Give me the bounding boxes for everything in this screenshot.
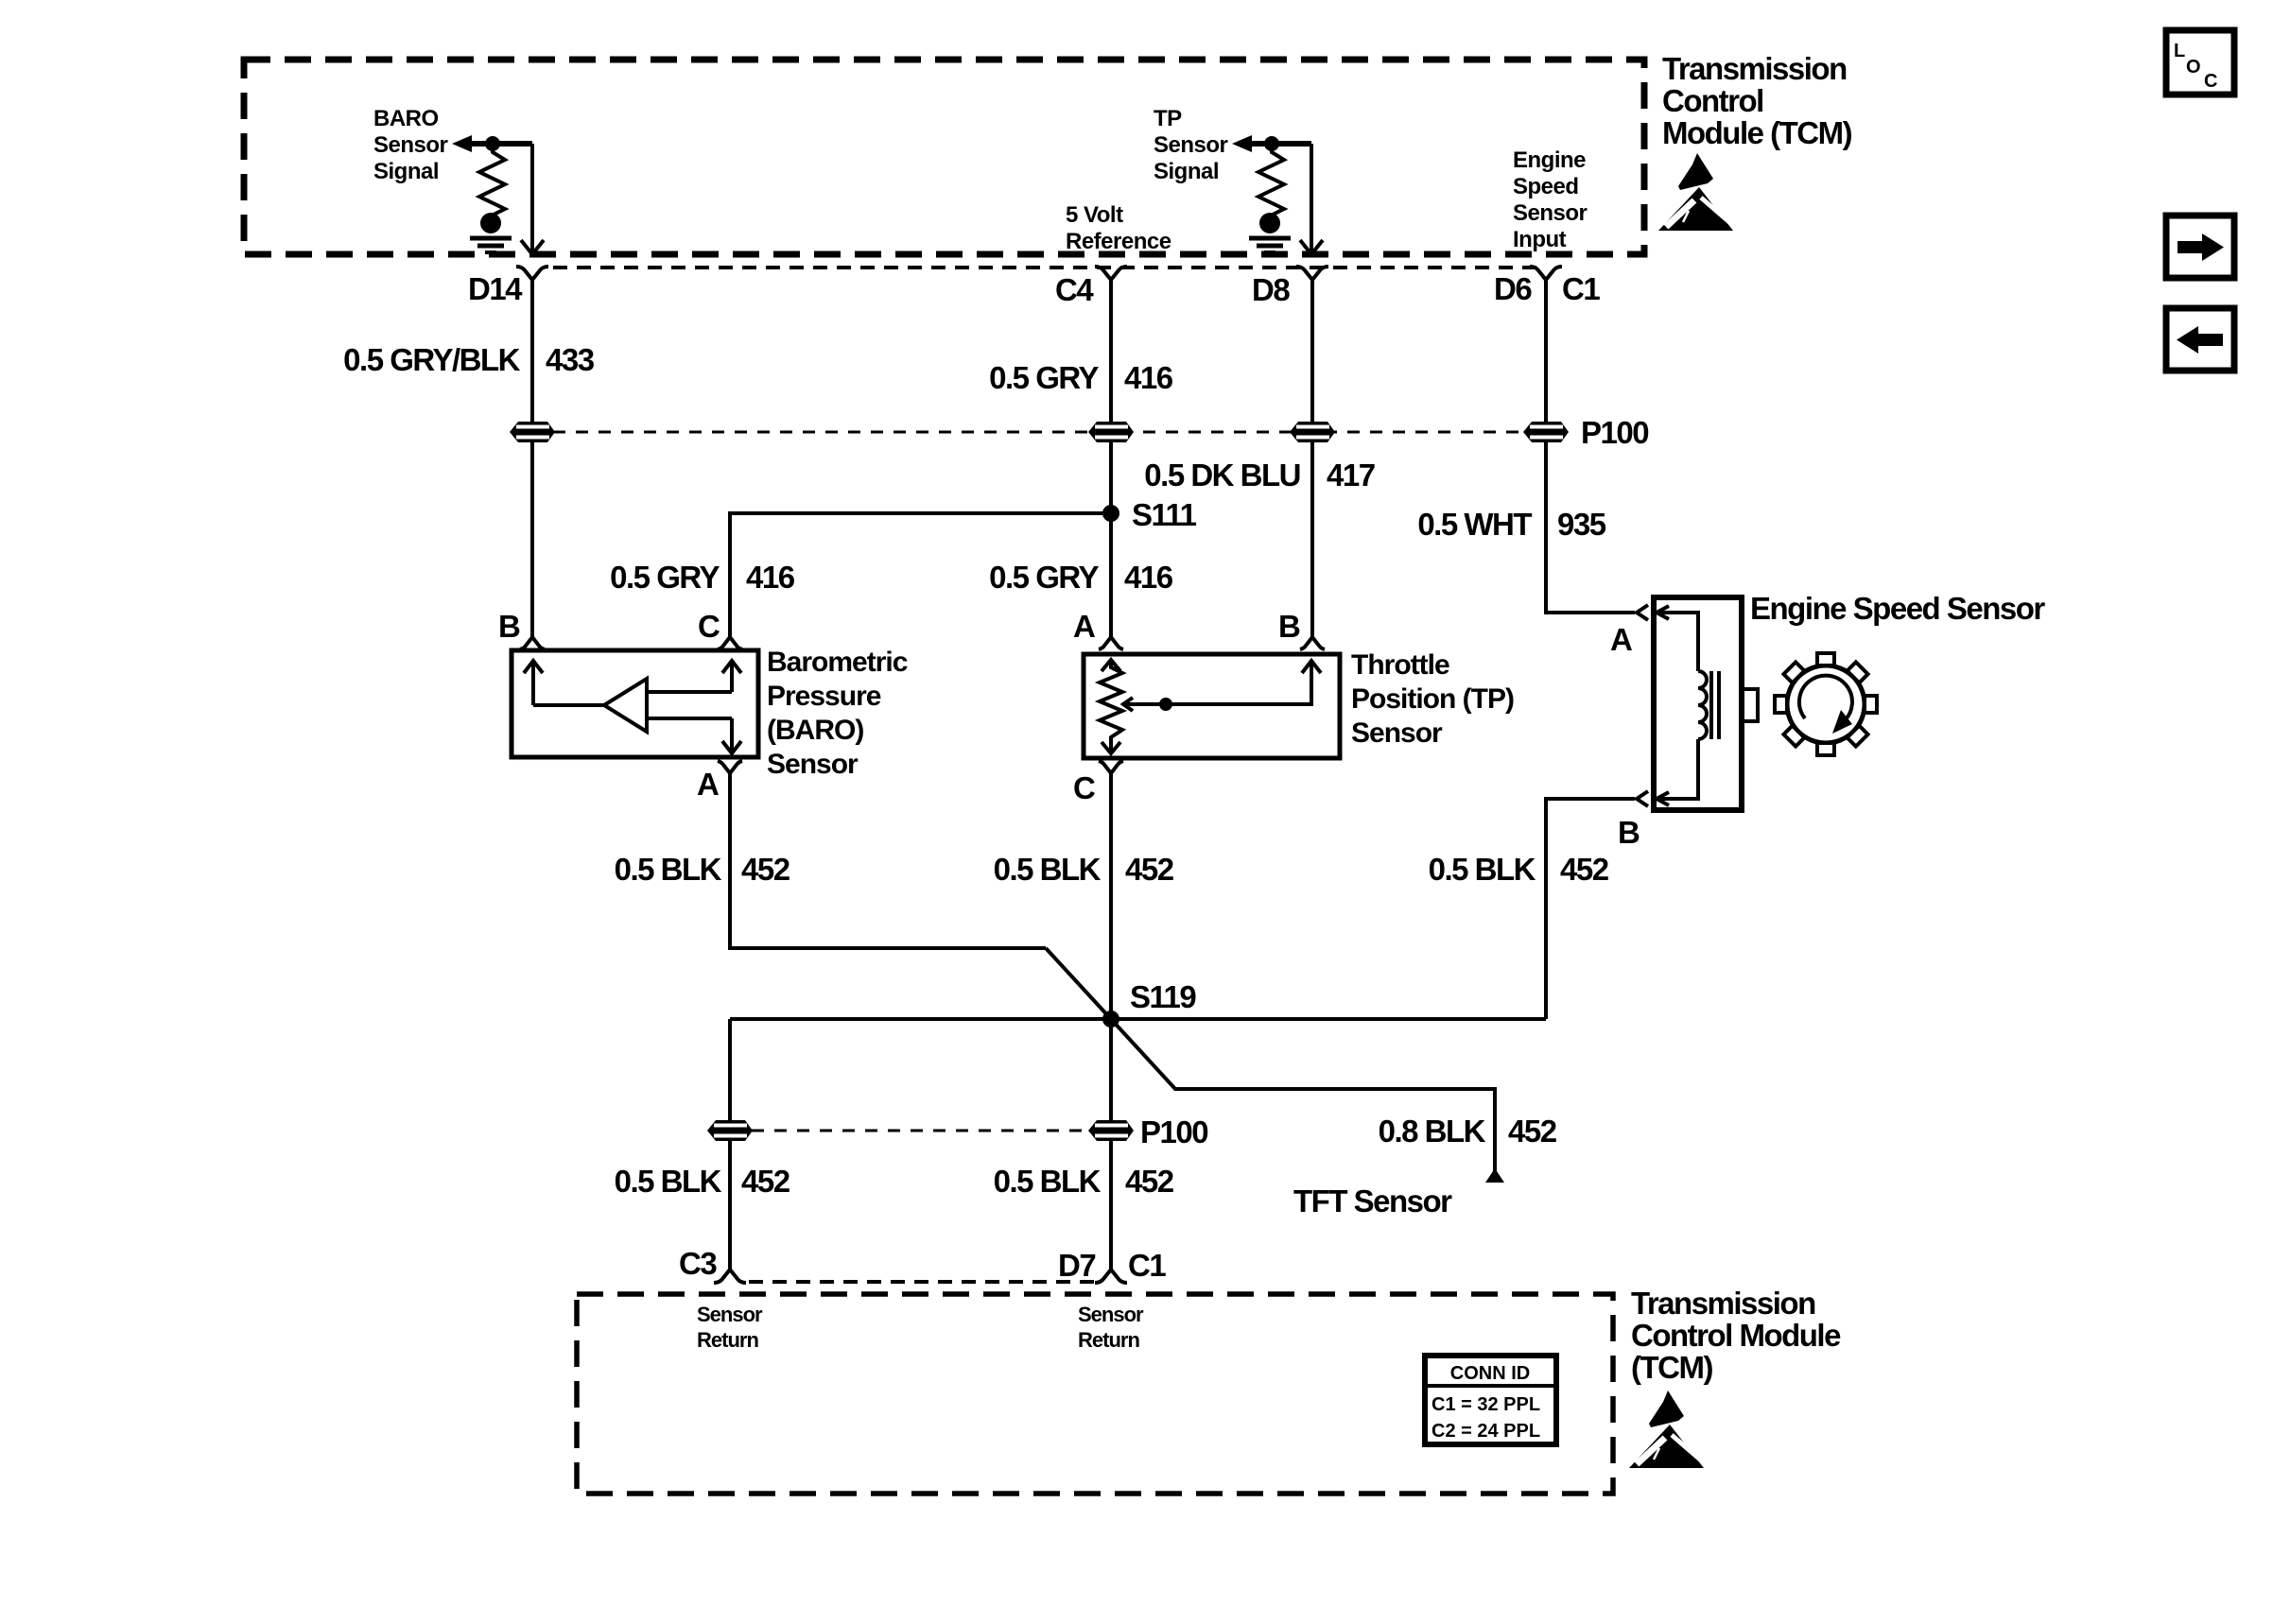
svg-text:C1: C1: [1128, 1248, 1166, 1283]
svg-text:D14: D14: [468, 271, 523, 306]
pin C (TP): [1073, 761, 1123, 805]
svg-text:Pressure: Pressure: [767, 681, 881, 712]
svg-text:Engine: Engine: [1513, 147, 1586, 173]
wire: left leg down to C3: [728, 1019, 732, 1270]
svg-text:P100: P100: [1140, 1114, 1207, 1149]
svg-text:0.5 BLK: 0.5 BLK: [615, 852, 722, 887]
svg-text:0.5 DK BLU: 0.5 DK BLU: [1144, 458, 1300, 492]
svg-text:Transmission: Transmission: [1662, 51, 1847, 86]
svg-text:C3: C3: [679, 1246, 717, 1281]
ground (BARO resistor): [470, 213, 512, 252]
pin C (BARO): [698, 609, 742, 649]
Throttle Position (TP) Sensor box: [1084, 654, 1340, 758]
pin C3: [679, 1246, 746, 1283]
wire 935: D6 to Engine Speed Sensor A: [1546, 280, 1635, 613]
label 0.5 GRY 416 (TP A): [989, 560, 1173, 595]
BARO Sensor Signal label: [373, 106, 448, 184]
svg-text:0.5 WHT: 0.5 WHT: [1417, 507, 1532, 542]
svg-text:A: A: [1073, 609, 1095, 644]
pin B (BARO): [498, 609, 545, 649]
wire 452: ESS B to S119: [1546, 799, 1635, 1019]
svg-text:452: 452: [1508, 1114, 1557, 1149]
label 0.5 BLK 452 (bottom left): [615, 1164, 790, 1199]
Sensor Return label (D7): [1078, 1303, 1144, 1352]
TP Sensor Signal label: [1154, 106, 1228, 184]
resistor (BARO signal pull-up): [479, 147, 505, 216]
svg-text:0.5 BLK: 0.5 BLK: [994, 1164, 1102, 1199]
svg-text:0.8 BLK: 0.8 BLK: [1379, 1114, 1486, 1149]
svg-text:Sensor: Sensor: [697, 1303, 763, 1326]
label 0.5 GRY 416 (C4): [989, 360, 1173, 395]
ground (TP resistor): [1249, 213, 1291, 252]
svg-text:Sensor: Sensor: [767, 749, 859, 780]
svg-text:452: 452: [1125, 1164, 1174, 1199]
svg-text:C2 = 24 PPL: C2 = 24 PPL: [1431, 1421, 1540, 1442]
Throttle Position (TP) Sensor label: [1351, 649, 1514, 749]
svg-text:S111: S111: [1132, 497, 1197, 532]
pin D8: [1252, 267, 1328, 307]
ESD symbol (top TCM): [1658, 153, 1736, 231]
svg-text:D8: D8: [1252, 272, 1290, 307]
svg-text:416: 416: [1124, 560, 1173, 595]
svg-text:(BARO): (BARO): [767, 715, 863, 746]
TP internal potentiometer: [1100, 660, 1321, 753]
svg-text:0.5 GRY/BLK: 0.5 GRY/BLK: [343, 342, 520, 377]
label 0.8 BLK 452: [1379, 1114, 1557, 1149]
TCM connector edge (thin dashed): [553, 266, 1541, 269]
pin A (ESS): [1610, 605, 1648, 657]
svg-text:0.5 BLK: 0.5 BLK: [1429, 852, 1536, 887]
pin B (ESS): [1618, 791, 1648, 850]
reluctor wheel (gear): [1775, 653, 1877, 755]
TCM module box (top, dashed): [244, 60, 1644, 254]
wire 416: C4 to S111: [1109, 280, 1113, 513]
svg-text:B: B: [1618, 815, 1640, 850]
svg-text:C: C: [1073, 770, 1095, 805]
svg-text:Sensor: Sensor: [373, 132, 448, 158]
svg-text:B: B: [498, 609, 520, 644]
CONN ID table: [1425, 1356, 1556, 1444]
wire 452: BARO A down and to S119: [730, 773, 1046, 948]
svg-text:Signal: Signal: [373, 159, 439, 184]
svg-text:Control: Control: [1662, 83, 1763, 118]
svg-text:D6: D6: [1494, 271, 1532, 306]
svg-text:S119: S119: [1130, 979, 1196, 1014]
node S111 splice: [1102, 497, 1197, 532]
label 0.5 BLK 452 (ESS): [1429, 852, 1609, 887]
svg-text:Position (TP): Position (TP): [1351, 683, 1514, 715]
svg-text:(TCM): (TCM): [1631, 1350, 1712, 1385]
pin C4: [1055, 267, 1127, 307]
pin D7 / C1 (bottom): [1058, 1248, 1166, 1283]
Transmission Control Module (TCM) title (bottom): [1631, 1286, 1841, 1385]
svg-text:TP: TP: [1154, 106, 1182, 131]
Transmission Control Module (TCM) title (top): [1662, 51, 1852, 150]
svg-text:P100: P100: [1581, 415, 1648, 450]
svg-text:Input: Input: [1513, 227, 1567, 252]
svg-text:L: L: [2174, 41, 2185, 61]
svg-text:0.5 GRY: 0.5 GRY: [610, 560, 720, 595]
pin D6 / C1: [1494, 267, 1600, 306]
wire: S111 to TP A: [1109, 513, 1113, 638]
svg-text:416: 416: [746, 560, 795, 595]
label 0.5 BLK 452 (TP): [994, 852, 1174, 887]
nav arrow left icon: [2166, 308, 2234, 371]
svg-text:C4: C4: [1055, 272, 1094, 307]
svg-text:Sensor: Sensor: [1513, 200, 1588, 226]
Sensor Return label (C3): [697, 1303, 763, 1352]
wire: TP signal down to D8 with arrowhead: [1300, 144, 1323, 254]
pin A (TP): [1073, 609, 1123, 649]
svg-text:TFT Sensor: TFT Sensor: [1293, 1183, 1452, 1218]
label 0.5 GRY/BLK 433: [343, 342, 595, 377]
inline connector P100 (top): [510, 415, 1648, 450]
TCM connector edge (bottom, thin dashed): [749, 1280, 1095, 1284]
svg-text:Sensor: Sensor: [1351, 717, 1443, 749]
ESS internal coil: [1657, 606, 1719, 805]
svg-text:935: 935: [1557, 507, 1606, 542]
svg-text:D7: D7: [1058, 1248, 1095, 1283]
wire 452: TP C down to S119: [1109, 773, 1113, 1270]
wire: S119 horizontal bus: [730, 1017, 1546, 1021]
label 0.5 BLK 452 (bottom middle): [994, 1164, 1174, 1199]
wire: diagonal through S119 to TFT branch: [1046, 948, 1495, 1171]
wire 417: D8 to TP B: [1310, 280, 1314, 638]
svg-text:Control Module: Control Module: [1631, 1318, 1841, 1353]
svg-text:BARO: BARO: [373, 106, 439, 131]
BARO internal amplifier: [524, 661, 741, 753]
node: TP signal junction: [1264, 136, 1279, 151]
5 Volt Reference label: [1066, 202, 1171, 254]
BARO signal arrow (to BARO Sensor Signal): [452, 135, 532, 152]
svg-text:Module (TCM): Module (TCM): [1662, 115, 1852, 150]
svg-text:416: 416: [1124, 360, 1173, 395]
svg-text:C1 = 32 PPL: C1 = 32 PPL: [1431, 1394, 1540, 1415]
svg-text:Throttle: Throttle: [1351, 649, 1449, 681]
wire: BARO signal down to D14 with arrowhead: [521, 144, 544, 254]
svg-text:Signal: Signal: [1154, 159, 1219, 184]
svg-text:0.5 GRY: 0.5 GRY: [989, 360, 1099, 395]
label 0.5 WHT 935: [1417, 507, 1605, 542]
svg-text:Engine Speed Sensor: Engine Speed Sensor: [1750, 591, 2045, 626]
Engine Speed Sensor Input label: [1513, 147, 1588, 252]
node: BARO signal junction: [485, 136, 500, 151]
ESS connector tab: [1742, 689, 1758, 721]
pin A (BARO): [697, 761, 742, 802]
svg-text:Return: Return: [697, 1328, 758, 1352]
LOC icon: [2166, 30, 2234, 95]
pin B (TP): [1278, 609, 1325, 649]
TCM module box (bottom, dashed): [577, 1294, 1613, 1494]
svg-text:A: A: [697, 767, 719, 802]
ESD symbol (bottom TCM): [1629, 1391, 1707, 1468]
svg-text:0.5 BLK: 0.5 BLK: [994, 852, 1102, 887]
svg-text:417: 417: [1327, 458, 1375, 492]
svg-text:0.5 GRY: 0.5 GRY: [989, 560, 1099, 595]
svg-text:C: C: [2204, 71, 2217, 92]
Barometric Pressure (BARO) Sensor label: [767, 647, 908, 780]
svg-text:452: 452: [741, 1164, 790, 1199]
svg-text:CONN ID: CONN ID: [1450, 1363, 1530, 1384]
svg-text:Return: Return: [1078, 1328, 1139, 1352]
node S119 splice: [1102, 979, 1196, 1028]
wire: S111 to BARO C: [730, 513, 1111, 638]
svg-text:452: 452: [741, 852, 790, 887]
svg-text:C1: C1: [1562, 271, 1600, 306]
svg-text:O: O: [2186, 57, 2201, 78]
resistor (TP signal pull-up): [1258, 147, 1284, 216]
svg-text:Transmission: Transmission: [1631, 1286, 1815, 1321]
svg-text:Barometric: Barometric: [767, 647, 908, 678]
inline connector P100 (bottom): [707, 1114, 1207, 1149]
svg-text:Sensor: Sensor: [1154, 132, 1228, 158]
nav arrow right icon: [2166, 216, 2234, 278]
TP signal arrow (to TP Sensor Signal): [1232, 135, 1311, 152]
svg-text:5 Volt: 5 Volt: [1066, 202, 1123, 228]
wire 433: D14 to BARO B: [530, 280, 534, 638]
svg-text:Sensor: Sensor: [1078, 1303, 1144, 1326]
Barometric Pressure (BARO) Sensor box: [512, 650, 758, 757]
label 0.5 GRY 416 (BARO C): [610, 560, 795, 595]
label 0.5 BLK 452 (BARO): [615, 852, 790, 887]
svg-text:433: 433: [546, 342, 595, 377]
svg-text:452: 452: [1560, 852, 1609, 887]
svg-text:C: C: [698, 609, 720, 644]
label 0.5 DK BLU 417: [1144, 458, 1374, 492]
svg-text:Speed: Speed: [1513, 174, 1579, 199]
svg-text:Reference: Reference: [1066, 229, 1171, 254]
svg-text:0.5 BLK: 0.5 BLK: [615, 1164, 722, 1199]
Engine Speed Sensor box: [1654, 597, 1742, 810]
svg-text:A: A: [1610, 622, 1632, 657]
TFT sensor branch arrow: [1293, 1168, 1504, 1218]
svg-text:452: 452: [1125, 852, 1174, 887]
svg-text:B: B: [1278, 609, 1300, 644]
pin D14: [468, 267, 548, 306]
